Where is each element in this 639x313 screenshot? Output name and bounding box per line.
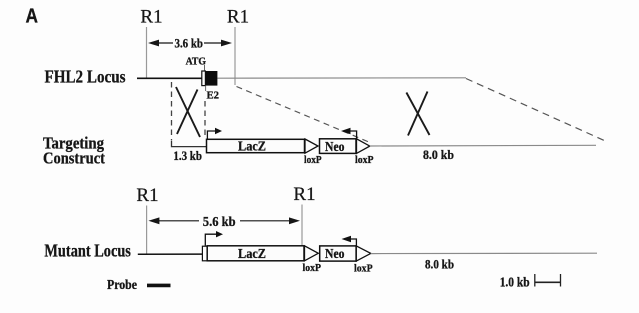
svg-text:8.0 kb: 8.0 kb: [425, 257, 454, 272]
svg-text:LacZ: LacZ: [238, 139, 266, 154]
svg-text:3.6 kb: 3.6 kb: [175, 36, 204, 51]
scale bar: [535, 274, 561, 287]
8.0 kb arm line (construct, gray): [370, 144, 596, 147]
Neo box (mutant): [320, 246, 356, 261]
svg-text:5.6 kb: 5.6 kb: [203, 215, 236, 230]
dashed homology line right: [204, 101, 206, 137]
svg-text:Probe: Probe: [107, 278, 137, 293]
promoter arrowhead (construct LacZ): [215, 128, 222, 134]
dashed diagonal E2 to cassette: [237, 87, 371, 143]
exon 1 white box: [202, 71, 206, 86]
loxP triangle 2 (mutant): [356, 246, 371, 261]
loxP triangle 2 (construct): [357, 139, 370, 154]
crossover X right: [406, 92, 429, 136]
loxP triangle 1 (construct): [305, 139, 318, 153]
R1 site line bottom-right: [301, 205, 303, 246]
dashed diagonal locus end to construct end: [466, 79, 605, 141]
svg-text:1.0 kb: 1.0 kb: [500, 274, 530, 289]
LacZ box (construct): [207, 139, 305, 152]
white box (mutant): [202, 246, 207, 261]
probe bar: [147, 284, 171, 288]
svg-text:8.0 kb: 8.0 kb: [423, 147, 454, 162]
mutant locus line (left, black): [138, 253, 203, 255]
E2 tick: [205, 86, 207, 91]
exon E2 black box: [205, 71, 217, 86]
R1 site line top-right: [234, 27, 236, 85]
svg-text:Mutant Locus: Mutant Locus: [44, 241, 131, 261]
loxP triangle 1 (mutant): [305, 246, 319, 261]
svg-text:E2: E2: [207, 90, 220, 102]
svg-text:loxP: loxP: [304, 154, 322, 166]
ATG tick: [204, 65, 206, 71]
1.3 kb homology arm line: [172, 141, 207, 147]
svg-text:loxP: loxP: [303, 262, 322, 274]
bent promoter arrow over LacZ (mutant): [205, 234, 216, 246]
5.6 kb dimension arrow: [148, 217, 300, 224]
svg-text:loxP: loxP: [354, 262, 373, 274]
LacZ box (mutant): [207, 246, 304, 261]
svg-text:FHL2 Locus: FHL2 Locus: [45, 67, 126, 87]
svg-text:A: A: [26, 5, 39, 27]
Neo box (construct): [320, 139, 357, 154]
svg-text:Construct: Construct: [43, 148, 105, 167]
svg-text:ATG: ATG: [186, 57, 207, 68]
arrowhead (mutant Neo): [342, 236, 352, 242]
R1 site line top-left: [146, 27, 148, 78]
svg-text:R1: R1: [227, 7, 249, 28]
svg-text:loxP: loxP: [355, 154, 374, 166]
FHL2 locus line (left, black): [137, 77, 202, 79]
bent arrow over Neo (construct, pointing left): [350, 131, 357, 139]
bent arrow over Neo (mutant, pointing left): [351, 239, 357, 246]
3.6 kb dimension arrow: [148, 40, 232, 47]
arrowhead (construct Neo): [341, 128, 351, 134]
svg-text:R1: R1: [136, 185, 158, 206]
dashed homology line left: [171, 82, 173, 140]
crossover X left: [176, 87, 200, 137]
FHL2 locus line (right, gray): [217, 77, 466, 79]
promoter arrowhead (mutant LacZ): [216, 231, 223, 237]
svg-text:R1: R1: [293, 184, 315, 205]
svg-text:LacZ: LacZ: [238, 246, 266, 261]
R1 site line bottom-left: [146, 206, 148, 254]
svg-text:1.3 kb: 1.3 kb: [173, 148, 202, 163]
svg-text:R1: R1: [140, 7, 162, 28]
svg-text:Neo: Neo: [325, 139, 345, 154]
bent promoter arrow over LacZ (construct): [207, 131, 215, 139]
svg-text:Neo: Neo: [325, 246, 345, 261]
8.0 kb arm line (mutant, gray): [371, 252, 597, 254]
